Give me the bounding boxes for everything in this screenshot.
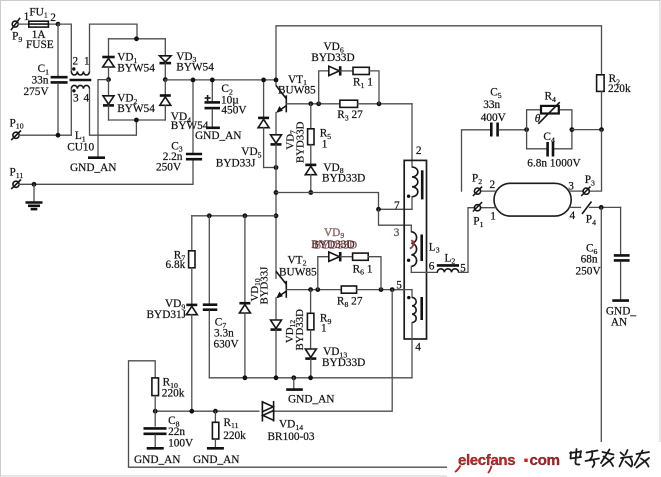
svg-text:250V: 250V	[576, 265, 602, 277]
svg-text:22n: 22n	[168, 426, 185, 438]
wire drive to pin2	[411, 104, 413, 167]
node VD9 bottom	[189, 409, 194, 414]
svg-text:1: 1	[322, 138, 328, 150]
svg-text:R3 27: R3 27	[337, 109, 363, 122]
svg-text:BYD33D: BYD33D	[314, 239, 357, 251]
svg-text:4: 4	[570, 210, 576, 222]
terminal P11	[10, 167, 24, 190]
svg-text:630V: 630V	[214, 339, 240, 351]
svg-text:7: 7	[394, 200, 400, 212]
diac VD14 BR100-03	[260, 401, 315, 443]
midpoint wire left	[192, 215, 276, 217]
node R2 bottom	[599, 127, 604, 132]
svg-text:BYD31J: BYD31J	[147, 309, 187, 321]
resistor R2 220k	[597, 73, 631, 129]
wire pin3 jog	[379, 209, 412, 225]
svg-text:1: 1	[84, 56, 90, 68]
node C7 top	[207, 213, 212, 218]
svg-text:4: 4	[84, 93, 90, 105]
bridge bottom rail	[109, 119, 166, 121]
node R4C4 right	[570, 127, 575, 132]
bridge top rail	[109, 38, 166, 40]
lamp	[494, 183, 571, 216]
node VT1 collector on DC rail	[274, 78, 279, 83]
diode VD8 BYD33D	[305, 162, 365, 193]
svg-text:33n: 33n	[483, 99, 500, 111]
svg-text:100V: 100V	[168, 437, 194, 449]
resonant wire to lamp	[462, 130, 490, 191]
svg-text:33n: 33n	[32, 75, 49, 87]
node VD5 top on DC rail	[261, 78, 266, 83]
node ground stub	[291, 375, 296, 380]
transistor VT1 BUW85	[276, 74, 316, 113]
transformer winding pins 5-4	[392, 279, 422, 377]
svg-text:CU10: CU10	[67, 141, 94, 153]
svg-text:BYW54: BYW54	[117, 103, 155, 115]
svg-text:3: 3	[568, 180, 574, 192]
svg-text:1: 1	[490, 211, 496, 223]
diode VD7 BYD33D	[271, 121, 307, 215]
ground GND_AN under C2	[195, 128, 241, 142]
svg-text:BYD33D: BYD33D	[322, 173, 365, 185]
svg-text:250V: 250V	[156, 161, 182, 173]
node R11 top	[213, 409, 218, 414]
svg-text:BYW54: BYW54	[176, 62, 214, 74]
svg-text:2: 2	[73, 56, 79, 68]
wire C1 bottom	[57, 84, 59, 136]
node R5 top	[308, 101, 313, 106]
svg-text:GND_AN: GND_AN	[70, 162, 116, 174]
wire VT1 emitter	[275, 113, 277, 135]
node VD5 bottom junction	[274, 165, 279, 170]
node VD6 branch right	[377, 101, 382, 106]
bottom emitter wire	[209, 377, 412, 379]
ground GND_AN under R11	[193, 448, 239, 466]
base wire VT2	[286, 289, 341, 291]
transistor VT2 BUW85	[276, 216, 317, 298]
node VD10 top	[243, 213, 248, 218]
watermark box	[447, 442, 661, 477]
capacitor C5 33n 400V	[481, 87, 527, 137]
capacitor C3 2.2n 250V	[156, 80, 202, 173]
node R9 top	[308, 287, 313, 292]
svg-text:BYW54: BYW54	[117, 63, 155, 75]
resistor R3 27	[337, 100, 412, 122]
wire to L1 pin2	[58, 24, 71, 71]
diode VD12 BYD33D	[271, 309, 306, 378]
inductor L2	[429, 252, 466, 274]
wire to R2 node	[572, 129, 602, 131]
diode VD2 BYW54	[103, 80, 155, 120]
svg-text:com: com	[530, 452, 560, 469]
diode VD11 BYD33D with resistor R6 1 branch	[318, 252, 381, 290]
svg-text:BUW85: BUW85	[279, 266, 317, 278]
svg-text:220k: 220k	[608, 83, 631, 95]
svg-text:BUW85: BUW85	[278, 85, 316, 97]
svg-text:GND_AN: GND_AN	[193, 454, 239, 466]
ground GND_AN bottom middle	[286, 378, 334, 406]
svg-text:6: 6	[429, 261, 435, 273]
node bridge right mid	[163, 77, 168, 82]
diode VD9 BYD31J	[147, 298, 198, 411]
node VT2 collector junction	[274, 213, 279, 218]
svg-text:6.8n 1000V: 6.8n 1000V	[527, 157, 581, 169]
node bridge AC2	[134, 118, 139, 123]
wire L2 to P1	[459, 208, 474, 273]
wire L1 pin3 down	[70, 89, 72, 136]
svg-text:400V: 400V	[481, 112, 507, 124]
diac wire from VT2 base	[155, 290, 392, 412]
node VD10 bottom	[243, 375, 248, 380]
node C1 bottom junction	[56, 133, 61, 138]
node P4 junction	[599, 205, 604, 210]
wire VT2 emitter	[275, 298, 277, 320]
node VD11 branch left	[315, 287, 320, 292]
terminal P10	[10, 117, 24, 140]
terminal P9	[11, 18, 22, 44]
diode VD6 BYD33D with resistor R1 1 branch	[311, 41, 379, 104]
base wire VT1	[286, 103, 340, 105]
resistor R10 220k with frame wire	[129, 361, 447, 467]
terminal P3	[568, 174, 595, 196]
fuse FU1	[24, 6, 57, 51]
red watermark text VD9 BYD33D	[311, 227, 357, 252]
svg-text:elecfans: elecfans	[458, 452, 515, 469]
wire P11 to C3	[19, 161, 193, 185]
capacitor C4 6.8n 1000V	[527, 130, 582, 170]
node diac riser and pin5	[390, 287, 395, 292]
svg-text:FUSE: FUSE	[26, 39, 54, 51]
svg-text:BYD33D: BYD33D	[294, 309, 306, 351]
node earth junction	[32, 182, 37, 187]
capacitor C7 3.3n 630V	[203, 216, 240, 378]
diode VD5 BYD33J	[216, 80, 276, 169]
svg-text:3.3n: 3.3n	[214, 327, 234, 339]
node bridge left mid	[106, 77, 111, 82]
svg-text:68n: 68n	[581, 254, 598, 266]
node R10 bottom	[153, 409, 158, 414]
diode VD4 BYW54	[160, 80, 209, 132]
svg-text:4: 4	[415, 341, 421, 353]
svg-text:GND_AN: GND_AN	[195, 130, 241, 142]
node R4C4 left	[524, 127, 529, 132]
svg-text:2: 2	[50, 12, 56, 24]
svg-text:BYD33J: BYD33J	[216, 157, 256, 169]
svg-text:3: 3	[394, 227, 400, 239]
capacitor C6 68n 250V	[576, 207, 630, 299]
transformer drive winding pins 2-7	[394, 145, 422, 212]
svg-text:GND_AN: GND_AN	[288, 393, 334, 405]
svg-text:BYD33J: BYD33J	[259, 267, 271, 305]
top DC wire	[276, 26, 602, 86]
node VD8 bottom on midpoint wire	[308, 190, 313, 195]
node VT2 emitter bottom	[274, 375, 279, 380]
node midpoint at VD7 bottom	[274, 190, 279, 195]
svg-text:BR100-03: BR100-03	[268, 431, 315, 443]
wire pin6 to L2	[411, 271, 437, 273]
wire P9 to fuse junction	[18, 23, 58, 25]
svg-text:θ: θ	[535, 113, 541, 125]
ground GND_AN under C6	[606, 301, 636, 329]
node VD6 branch left	[316, 101, 321, 106]
terminal P4 switch slash	[570, 202, 621, 227]
DC+ rail	[165, 79, 276, 81]
svg-text:1: 1	[321, 322, 327, 334]
node pin7 junction	[376, 207, 381, 212]
svg-text:BYD33D: BYD33D	[294, 121, 306, 163]
svg-text:R8 27: R8 27	[337, 296, 363, 309]
terminal P1	[473, 202, 496, 229]
wire L1 pin4 down	[90, 89, 137, 136]
svg-text:3: 3	[73, 93, 79, 105]
wire L1 pin1 to bridge top	[90, 24, 138, 71]
node bridge AC1	[134, 36, 139, 41]
wire P4 node down	[600, 207, 602, 442]
node VD13 bottom	[308, 375, 313, 380]
svg-text:6.8k: 6.8k	[166, 259, 186, 271]
ground GND_AN under C8	[134, 448, 180, 466]
svg-text:275V: 275V	[24, 86, 50, 98]
diode VD1 BYW54	[102, 39, 155, 80]
ground GND_AN under L1	[70, 158, 116, 174]
svg-text:450V: 450V	[221, 104, 247, 116]
svg-text:BYD33D: BYD33D	[311, 52, 354, 64]
thermistor R4	[527, 91, 572, 130]
wire P10	[19, 134, 71, 136]
terminal P2	[472, 173, 496, 196]
diode VD13 BYD33D	[305, 346, 365, 378]
resistor R11 220k	[212, 411, 246, 447]
wire C1 branch	[57, 24, 59, 76]
capacitor C2 10u 450V electrolytic	[205, 80, 248, 127]
capacitor C8 22n 100V	[144, 415, 195, 449]
wire R2 node to P3	[590, 130, 602, 191]
svg-text:220k: 220k	[223, 430, 246, 442]
wire to GND_AN stub	[98, 80, 109, 157]
common-mode choke L1 CU10	[67, 56, 94, 154]
svg-text:220k: 220k	[162, 387, 185, 399]
wire midpoint to transformer pin7/pin3	[276, 193, 412, 210]
node C3 top on DC rail	[191, 78, 196, 83]
resistor R5 1	[308, 104, 332, 165]
svg-text:2: 2	[490, 179, 496, 191]
earth ground	[26, 184, 43, 209]
svg-text:2: 2	[416, 145, 422, 157]
transformer winding L3 pins 3-6	[394, 225, 440, 272]
svg-text:AN: AN	[611, 316, 627, 328]
node fuse output	[56, 22, 61, 27]
node VD11 branch right	[379, 287, 384, 292]
svg-text:BYD33D: BYD33D	[322, 357, 365, 369]
capacitor C1 33n 275V	[24, 63, 68, 98]
svg-text:GND_AN: GND_AN	[134, 454, 180, 466]
diode VD10 BYD33J	[239, 216, 270, 378]
resistor R9 1	[307, 290, 331, 349]
transformer box	[404, 160, 426, 339]
watermark elecfans.com	[455, 452, 560, 473]
resistor R7 6.8k	[166, 216, 196, 305]
node C2 top on DC rail	[210, 78, 215, 83]
diode VD3 BYW54	[160, 39, 215, 80]
watermark chinese calligraphy	[570, 449, 649, 468]
resistor R8 27	[337, 286, 404, 309]
